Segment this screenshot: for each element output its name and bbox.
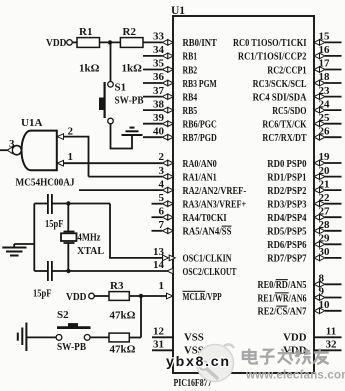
svg-text:VDD: VDD: [283, 345, 307, 357]
wire R3 to pin 1: [129, 295, 167, 297]
pin 12 VSS: [152, 336, 173, 338]
svg-text:OSC2/CLKOUT: OSC2/CLKOUT: [183, 267, 237, 278]
svg-text:47kΩ: 47kΩ: [110, 310, 136, 322]
pin 13 OSC1/CLKIN: [163, 255, 169, 261]
junction R3/R4: [139, 294, 143, 298]
svg-text:RA1/AN1: RA1/AN1: [183, 172, 217, 183]
svg-text:RB4: RB4: [183, 92, 198, 103]
pin 15 RC0: [314, 40, 320, 46]
svg-text:RD3/PSP3: RD3/PSP3: [267, 200, 306, 211]
pin 6 RA4: [152, 216, 163, 218]
svg-text:29: 29: [319, 233, 331, 245]
pin 37 RB4: [143, 96, 162, 98]
svg-text:25: 25: [319, 112, 331, 124]
junction C2/XTAL: [66, 269, 70, 273]
svg-text:39: 39: [153, 112, 165, 124]
svg-text:RC3/SCK/SCL: RC3/SCK/SCL: [253, 79, 307, 90]
svg-text:34: 34: [153, 44, 165, 56]
svg-text:35: 35: [153, 58, 165, 70]
svg-text:U1A: U1A: [21, 117, 42, 129]
pin 20 RD1: [314, 174, 320, 180]
wire C1 left: [34, 203, 48, 205]
svg-text:RE0/RD/AN5: RE0/RD/AN5: [258, 280, 307, 291]
svg-text:RC5/SDO: RC5/SDO: [272, 106, 306, 117]
pin 21 RD2: [314, 187, 320, 193]
svg-text:RD0 PSP0: RD0 PSP0: [267, 159, 306, 170]
svg-text:VDD: VDD: [283, 332, 307, 344]
wire: [129, 337, 141, 339]
svg-text:4MHz: 4MHz: [78, 232, 101, 244]
svg-text:1: 1: [159, 280, 165, 292]
capacitor C2 15pF (bottom): [47, 261, 49, 281]
resistor R1: [77, 38, 100, 48]
pin 1 MCLR/VPP: [167, 293, 173, 299]
svg-text:27: 27: [319, 205, 331, 217]
pin 40 RB7: [143, 136, 162, 138]
ground (S1, inverted): [122, 134, 143, 136]
svg-text:6: 6: [159, 205, 165, 217]
svg-text:RE2/CS/AN7: RE2/CS/AN7: [258, 307, 308, 318]
svg-text:RA0/AN0: RA0/AN0: [183, 159, 217, 170]
svg-text:3: 3: [9, 138, 15, 150]
ground (S2, sideways): [25, 323, 27, 352]
svg-text:ybx8.cn: ybx8.cn: [166, 354, 231, 370]
svg-text:15pF: 15pF: [33, 288, 52, 300]
svg-text:3: 3: [159, 165, 165, 177]
watermark 电子发烧友: [243, 349, 329, 365]
svg-text:32: 32: [326, 339, 338, 351]
svg-text:33: 33: [153, 31, 165, 43]
svg-text:26: 26: [319, 125, 331, 137]
junction C1/XTAL: [66, 201, 70, 205]
pin 30 RD7: [314, 255, 320, 261]
svg-text:31: 31: [153, 339, 164, 351]
wire junction down to R4: [140, 296, 142, 338]
svg-text:12: 12: [153, 326, 165, 338]
IC U1 PIC16F877 body: [173, 16, 314, 373]
capacitor C1 15pF (top): [47, 194, 49, 214]
pin 39 RB6: [143, 123, 162, 125]
svg-text:RD7/PSP7: RD7/PSP7: [267, 254, 307, 265]
pin 7 RA5: [152, 230, 163, 232]
svg-text:20: 20: [319, 165, 331, 177]
svg-text:RB0/INT: RB0/INT: [183, 38, 217, 49]
pin 27 RD4: [314, 214, 320, 220]
pin 14 OSC2/CLKOUT: [167, 268, 173, 274]
resistor R3: [109, 292, 129, 301]
pin 17 RC2: [314, 67, 320, 73]
svg-text:36: 36: [153, 71, 165, 83]
pin 29 RD6: [314, 242, 320, 248]
pin 22 RD3: [314, 201, 320, 207]
svg-text:RD4/PSP4: RD4/PSP4: [267, 213, 307, 224]
svg-text:OSC1/CLKIN: OSC1/CLKIN: [183, 254, 232, 265]
svg-text:19: 19: [319, 151, 331, 163]
svg-text:RD5/PSP5: RD5/PSP5: [267, 227, 306, 238]
wire to ground: [14, 243, 34, 245]
wire C1 right to OSC1 net: [52, 203, 110, 205]
svg-text:MCLR/VPP: MCLR/VPP: [183, 292, 223, 303]
svg-text:R1: R1: [79, 26, 92, 38]
svg-text:R3: R3: [110, 280, 124, 292]
svg-text:RC2/CCP1: RC2/CCP1: [267, 65, 306, 76]
watermark magnifier disc: [197, 345, 234, 382]
pin 3 RA1: [162, 174, 168, 180]
svg-text:28: 28: [319, 219, 331, 231]
wire junction down to S1: [110, 42, 112, 81]
svg-text:24: 24: [319, 98, 331, 110]
svg-text:XTAL: XTAL: [77, 245, 104, 257]
svg-text:14: 14: [153, 259, 165, 271]
switch S1 SW-PB: [108, 82, 114, 88]
pin 5 RA3: [152, 203, 163, 205]
svg-text:RD1/PSP1: RD1/PSP1: [267, 172, 306, 183]
pin 23 RC4: [314, 94, 320, 100]
wire: [90, 336, 109, 338]
svg-text:9: 9: [319, 286, 325, 298]
svg-text:RE1/WR/AN6: RE1/WR/AN6: [257, 293, 306, 304]
svg-text:VDD: VDD: [66, 291, 87, 303]
svg-text:10: 10: [319, 299, 331, 311]
svg-text:RC6/TX/CK: RC6/TX/CK: [262, 120, 307, 131]
svg-text:18: 18: [319, 71, 331, 83]
wire gate input pin 2 to RA1: [57, 137, 89, 177]
svg-text:MC54HC00AJ: MC54HC00AJ: [16, 178, 75, 189]
pin 10 RE2: [314, 308, 320, 314]
svg-text:VDD: VDD: [46, 37, 67, 49]
svg-text:RB6/PGC: RB6/PGC: [183, 120, 217, 131]
pin 35 RB2: [143, 69, 162, 71]
svg-text:7: 7: [159, 219, 165, 231]
svg-text:www.elecfans.com: www.elecfans.com: [245, 370, 345, 382]
svg-text:23: 23: [319, 85, 331, 97]
wire S1 to ground: [111, 124, 133, 149]
svg-text:4: 4: [159, 178, 165, 190]
wire C2 right to pin 14: [52, 270, 168, 272]
wire: [72, 41, 77, 43]
wire R2 to pin33: [143, 41, 162, 43]
svg-text:11: 11: [326, 326, 336, 338]
svg-text:RC1/T1OSI/CCP2: RC1/T1OSI/CCP2: [238, 52, 307, 63]
pin 34 RB1: [143, 55, 162, 57]
svg-text:37: 37: [153, 85, 165, 97]
svg-text:RA5/AN4/SS: RA5/AN4/SS: [183, 227, 232, 238]
pin 2 RA0: [162, 160, 168, 166]
pin 26 RC7: [314, 134, 320, 140]
svg-text:5: 5: [159, 192, 165, 204]
svg-text:17: 17: [319, 58, 331, 70]
svg-text:15pF: 15pF: [45, 218, 64, 230]
svg-text:1kΩ: 1kΩ: [122, 63, 143, 75]
wire OSC1 net down/right to pin 13: [110, 204, 163, 258]
svg-text:RC0 T1OSO/T1CKI: RC0 T1OSO/T1CKI: [233, 38, 307, 49]
svg-text:RB5: RB5: [183, 106, 198, 117]
wire: [100, 41, 121, 43]
pin 36 RB3 PGM: [143, 82, 162, 84]
svg-text:1kΩ: 1kΩ: [79, 63, 100, 75]
pin 31 VSS: [152, 349, 173, 351]
gate U1A MC54HC00AJ body (mirrored NAND): [22, 131, 57, 171]
crystal X1 4MHz: [67, 204, 69, 232]
pin 32 VDD: [314, 349, 342, 351]
pin 4 RA2: [162, 187, 168, 193]
pin 8 RE0: [314, 282, 320, 288]
svg-text:RD6/PSP6: RD6/PSP6: [267, 240, 306, 251]
svg-text:13: 13: [153, 246, 165, 258]
svg-text:RB1: RB1: [183, 52, 198, 63]
left rail of crystal: [33, 204, 35, 272]
pin 28 RD5: [314, 228, 320, 234]
output bubble (pin 3): [12, 146, 21, 155]
svg-text:2: 2: [68, 126, 74, 138]
wire: [26, 336, 56, 338]
svg-text:47kΩ: 47kΩ: [110, 344, 136, 356]
svg-text:RB3 PGM: RB3 PGM: [183, 79, 217, 90]
svg-text:16: 16: [319, 44, 331, 56]
svg-text:RD2/PSP2: RD2/PSP2: [267, 186, 306, 197]
svg-text:SW-PB: SW-PB: [57, 341, 87, 353]
svg-text:R2: R2: [123, 26, 137, 38]
pin 38 RB5: [143, 109, 162, 111]
svg-text:RA3/AN3/VREF+: RA3/AN3/VREF+: [183, 200, 247, 211]
pin 19 RD0: [314, 160, 320, 166]
svg-text:2: 2: [159, 151, 165, 163]
svg-text:RB7/PGD: RB7/PGD: [183, 133, 218, 144]
svg-text:SW-PB: SW-PB: [115, 95, 145, 107]
wire gate input pin 1 = RA0 net: [57, 162, 163, 164]
resistor R2: [120, 38, 143, 48]
svg-text:U1: U1: [171, 5, 185, 17]
resistor R4 47k: [109, 333, 129, 342]
wire RA1 net to IC: [89, 176, 163, 178]
pin 25 RC6: [314, 121, 320, 127]
svg-text:1: 1: [68, 151, 74, 163]
svg-text:30: 30: [319, 246, 331, 258]
wire output pin 3: [0, 149, 8, 151]
svg-text:22: 22: [319, 192, 331, 204]
svg-text:RC7/RX/DT: RC7/RX/DT: [262, 133, 306, 144]
svg-text:S2: S2: [57, 309, 69, 321]
svg-text:38: 38: [153, 98, 165, 110]
svg-text:RB2: RB2: [183, 65, 198, 76]
svg-text:15: 15: [319, 31, 331, 43]
pin 24 RC5: [314, 107, 320, 113]
wire RA2 net (dangling): [79, 189, 162, 191]
ground (crystal): [2, 247, 26, 249]
svg-text:S1: S1: [115, 82, 127, 94]
svg-text:VSS: VSS: [184, 332, 204, 344]
pin 9 RE1: [314, 295, 320, 301]
svg-text:RA2/AN2/VREF-: RA2/AN2/VREF-: [183, 186, 247, 197]
junction R1/R2/S1: [108, 40, 112, 44]
wire: [94, 295, 109, 297]
svg-text:21: 21: [319, 178, 330, 190]
svg-text:8: 8: [319, 273, 325, 285]
pin 16 RC1: [314, 53, 320, 59]
wire C2 left: [34, 270, 48, 272]
pin 33 RB0: [162, 40, 168, 46]
pin 18 RC3: [314, 80, 320, 86]
svg-text:RA4/T0CKI: RA4/T0CKI: [183, 213, 227, 224]
svg-text:40: 40: [153, 125, 165, 137]
pin 11 VDD: [314, 336, 342, 338]
svg-text:RC4 SDI/SDA: RC4 SDI/SDA: [253, 92, 307, 103]
